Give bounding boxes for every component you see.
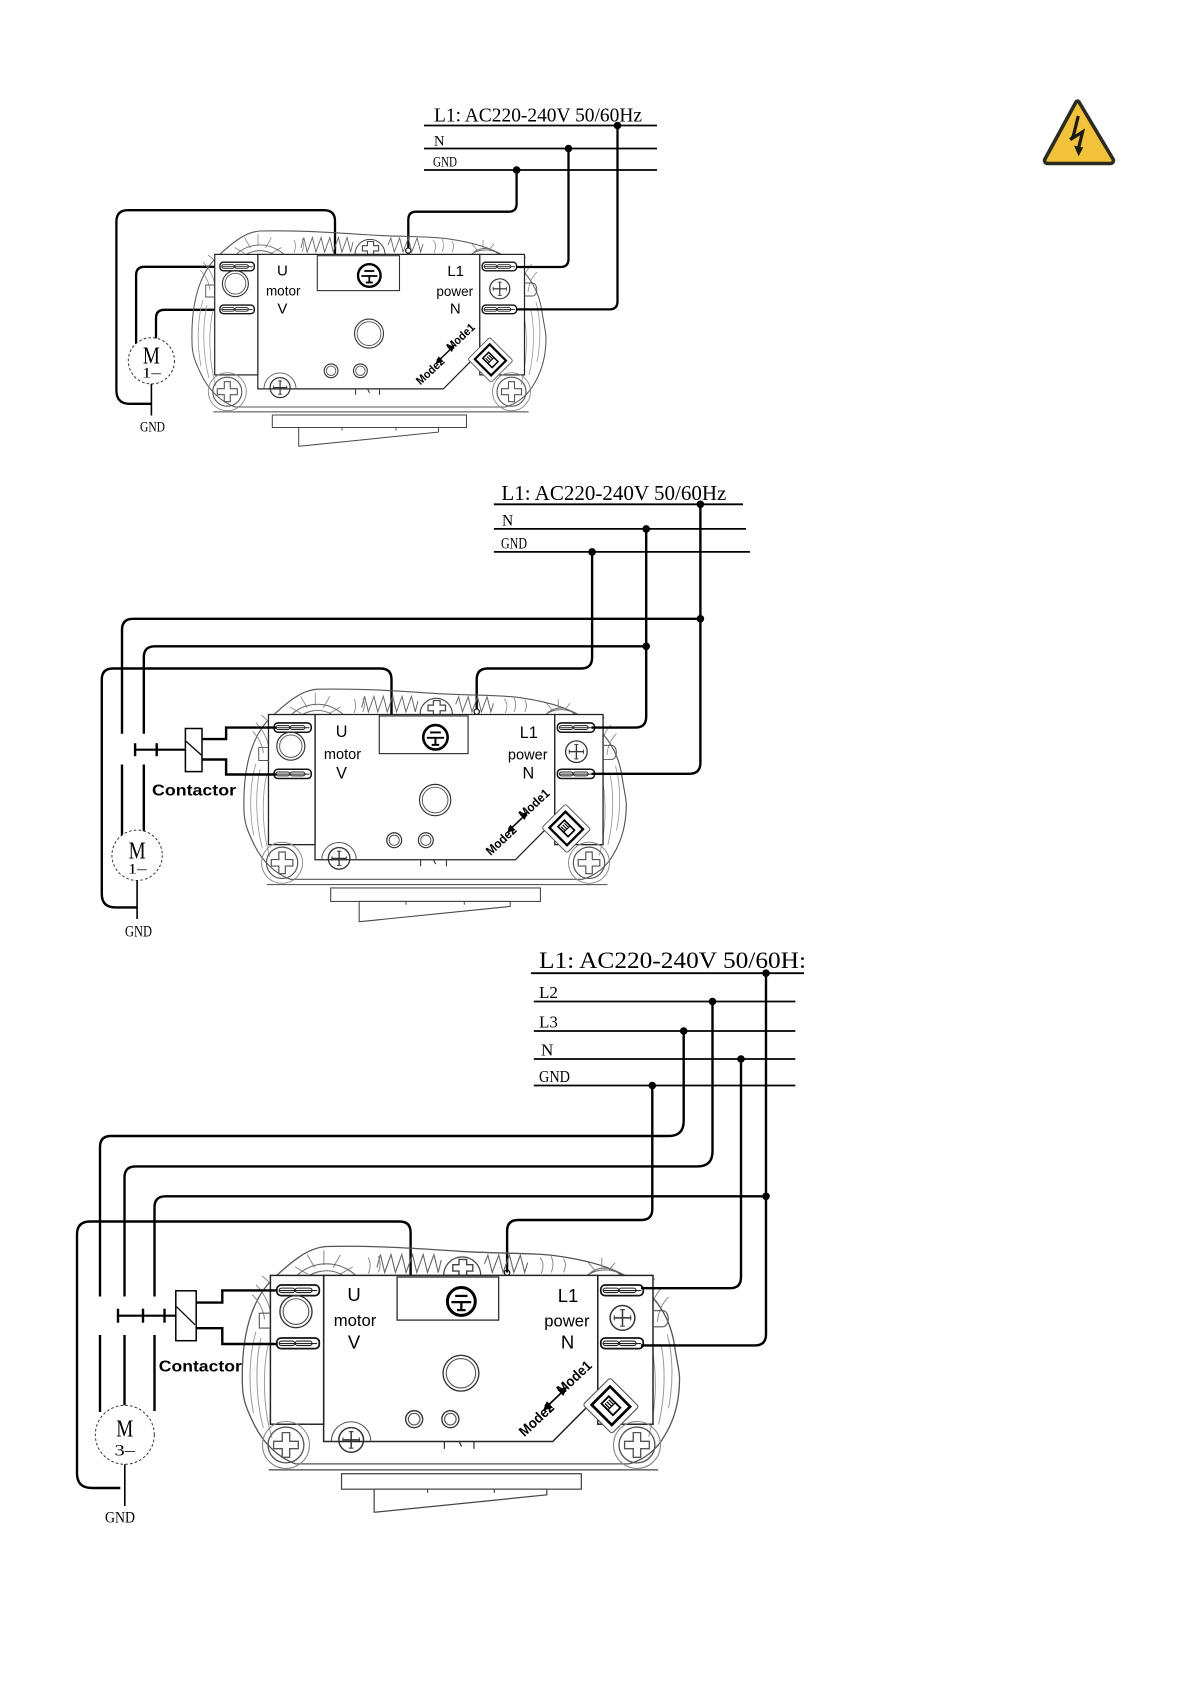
bus line L1 — [424, 125, 657, 127]
svg-text:L3: L3 — [539, 1013, 558, 1032]
wire motor to GND — [136, 881, 138, 920]
junction dot N-motor feed — [642, 643, 650, 651]
contactor diagonal — [177, 1307, 196, 1325]
bus line L1 — [494, 503, 743, 505]
wire U terminal to motor — [136, 267, 221, 344]
svg-text:1–: 1– — [142, 366, 162, 382]
wire L2 bus to motor — [125, 1002, 713, 1407]
svg-text:L1: AC220-240V 50/60Hz: L1: AC220-240V 50/60Hz — [501, 481, 726, 505]
wire GND bus to device earth — [408, 170, 516, 248]
bus line GND — [424, 169, 657, 171]
bus line N — [494, 528, 746, 530]
wire tip ring — [474, 709, 479, 714]
wire motor to GND — [150, 384, 152, 416]
junction dot GND — [588, 548, 596, 556]
junction dot N — [737, 1055, 745, 1063]
junction dot L3 — [680, 1027, 688, 1035]
wire motor to GND — [124, 1464, 126, 1506]
svg-text:GND: GND — [501, 535, 527, 552]
motor M3 circle — [95, 1405, 154, 1464]
svg-text:GND: GND — [433, 155, 457, 171]
lightning bolt — [1070, 116, 1082, 147]
wire L1 bus down to N terminal — [641, 973, 766, 1345]
svg-text:GND: GND — [140, 420, 165, 436]
svg-text:L1: AC220-240V 50/60Hz: L1: AC220-240V 50/60Hz — [434, 106, 642, 127]
motor M2 circle — [112, 830, 162, 880]
svg-text:N: N — [541, 1041, 553, 1060]
wire N bus to L1 terminal — [641, 1059, 741, 1288]
contactor diagonal — [186, 741, 201, 755]
contactor contact bars — [135, 743, 157, 756]
wire contactor to U terminal — [196, 1290, 276, 1302]
svg-text:1–: 1– — [128, 862, 148, 878]
wire N bus down to L1 terminal — [592, 529, 647, 728]
contactor box — [176, 1291, 196, 1341]
bus line GND — [494, 551, 750, 553]
motor M1 circle — [128, 338, 174, 384]
svg-text:Contactor: Contactor — [159, 1359, 242, 1376]
warning triangle high voltage — [1045, 101, 1114, 163]
junction dot GND — [513, 166, 521, 174]
wire N feed to motor — [144, 646, 646, 838]
wire tip ring — [406, 248, 411, 253]
junction dot L1-motor feed — [697, 615, 705, 623]
wire L1 feed to motor — [155, 1196, 767, 1411]
svg-text:GND: GND — [539, 1067, 570, 1086]
bus line L2 — [534, 1001, 796, 1003]
bus line N — [534, 1058, 796, 1060]
bus line GND — [534, 1085, 796, 1087]
device 2 — [244, 689, 626, 922]
wire N bus to L1 terminal — [517, 149, 569, 268]
device 1 — [192, 231, 546, 446]
wire L1 bus to N terminal — [517, 126, 618, 310]
wire motor earth loop — [102, 669, 392, 908]
device 3 — [242, 1246, 679, 1512]
svg-text:Contactor: Contactor — [152, 782, 236, 799]
wire tip ring — [504, 1270, 509, 1275]
svg-text:L2: L2 — [539, 983, 558, 1002]
junction dot L2 — [709, 998, 717, 1006]
contactor contact bars — [118, 1309, 165, 1323]
junction dot L1 — [762, 969, 770, 977]
contactor input line — [117, 1315, 176, 1317]
junction dot L1 — [614, 122, 622, 130]
svg-text:L1: AC220-240V 50/60H:: L1: AC220-240V 50/60H: — [539, 948, 806, 973]
svg-text:3–: 3– — [115, 1443, 137, 1460]
wire GND bus to device earth — [477, 552, 592, 709]
junction dot N — [642, 525, 650, 533]
svg-text:N: N — [502, 512, 513, 529]
wire motor earth loop — [77, 1222, 411, 1489]
svg-text:GND: GND — [125, 924, 152, 941]
svg-text:N: N — [434, 134, 445, 150]
bus line L3 — [534, 1030, 796, 1032]
wire motor earth loop — [116, 210, 335, 404]
wire contactor to V terminal — [202, 760, 276, 775]
wire GND bus to device earth — [507, 1086, 652, 1273]
wire L1 feed to motor — [122, 619, 700, 838]
svg-text:GND: GND — [105, 1510, 135, 1527]
junction dot GND — [649, 1082, 657, 1090]
wire contactor to V terminal — [196, 1328, 276, 1344]
contactor box — [185, 729, 202, 772]
contactor input line — [135, 749, 186, 751]
wire V terminal to motor — [156, 310, 221, 345]
junction dot L1 — [697, 501, 705, 509]
bus line L1 — [531, 972, 804, 974]
svg-text:M: M — [116, 1416, 133, 1443]
wire contactor to U terminal — [202, 728, 276, 740]
junction dot N — [565, 145, 573, 153]
wire L1 bus down to N terminal — [592, 504, 701, 774]
bus line N — [424, 148, 657, 150]
wire L3 bus to motor — [100, 1031, 684, 1412]
junction dot L1-motor feed — [762, 1193, 770, 1201]
